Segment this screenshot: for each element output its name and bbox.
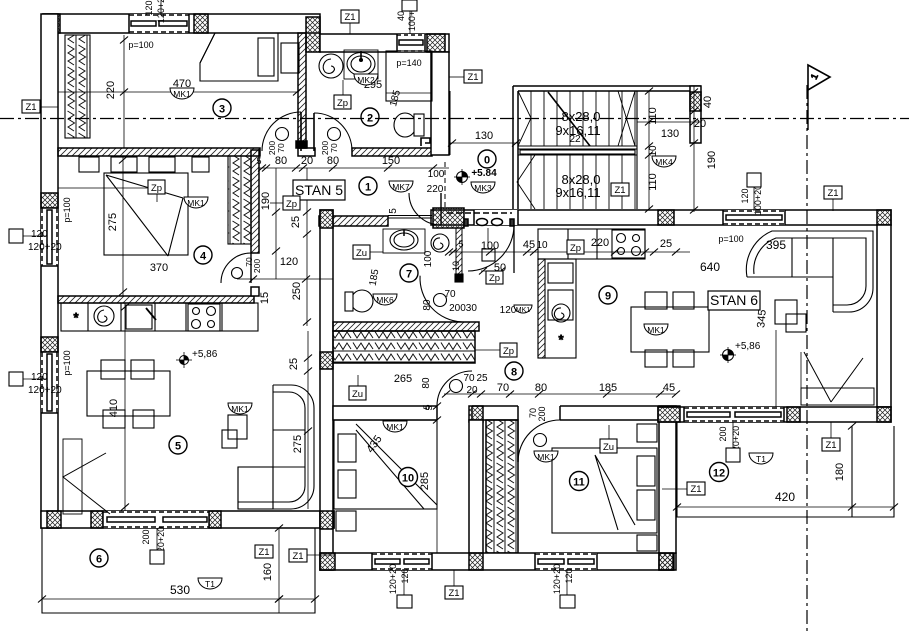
svg-text:110: 110 [647, 107, 659, 125]
band rooms10/11 bottom wall [320, 553, 676, 570]
MK1 room5 [228, 403, 252, 414]
leader squares bottom [157, 422, 733, 595]
pier band B 1 [469, 406, 483, 422]
svg-text:10: 10 [536, 240, 548, 251]
svg-text:100: 100 [481, 240, 499, 252]
centerline horizontal axis [0, 118, 909, 120]
hanger square kitchen6 [482, 228, 495, 261]
svg-text:40: 40 [396, 11, 406, 21]
band stair-bottom / STAN6 top wall [431, 210, 891, 225]
svg-text:120+20: 120+20 [28, 385, 62, 396]
svg-text:15: 15 [259, 292, 271, 304]
Z1 box top [341, 10, 359, 34]
sink bath7 [383, 229, 425, 253]
svg-text:120+20: 120+20 [156, 0, 166, 23]
wardrobe corridor8 [333, 331, 475, 363]
square marker stan6w [747, 173, 761, 187]
svg-text:p=100: p=100 [128, 40, 153, 50]
Zu box corridor [349, 375, 366, 400]
dim line corridor8 [442, 391, 680, 398]
svg-text:5: 5 [458, 239, 463, 249]
bed room10 [334, 420, 437, 509]
svg-text:345: 345 [755, 309, 769, 328]
stan6 corner V mark [804, 352, 863, 402]
bed room4 [104, 173, 188, 256]
dim line 190 vertical hall [272, 168, 280, 279]
MK6 bath7 [373, 294, 397, 305]
svg-text:Zp: Zp [151, 183, 162, 194]
stair flight boundary right [636, 91, 638, 209]
svg-text:20: 20 [301, 155, 313, 167]
window left wall (room5) [41, 352, 58, 413]
svg-text:p=100: p=100 [62, 197, 72, 222]
pier top-left corner [43, 14, 60, 33]
corner mark bath2 [421, 138, 430, 146]
svg-text:5: 5 [175, 441, 181, 453]
svg-text:6: 6 [96, 554, 102, 566]
Zp box hall [270, 196, 300, 210]
dim line stair top 130 [637, 119, 701, 126]
wall bath7 top hatched [319, 216, 388, 226]
svg-text:25: 25 [290, 216, 302, 228]
svg-text:130: 130 [475, 130, 493, 142]
room circle 2 [361, 108, 379, 126]
window bottom wall room5 (terrace door) [103, 511, 209, 528]
terrace 6 outline [42, 528, 315, 613]
wardrobe room4 [228, 156, 251, 244]
square marker terrace6win [150, 550, 164, 564]
dim line kitchen STAN6 [445, 249, 690, 256]
wall stub between hall doors [298, 148, 315, 156]
room circle 1 [359, 177, 377, 195]
svg-text:Zp: Zp [489, 273, 500, 284]
room circle 6 [90, 549, 108, 567]
dim line room5 vertical 410 [121, 303, 129, 511]
benchmark entry [454, 169, 470, 185]
pier band A left [433, 208, 464, 228]
square marker top2 [402, 0, 417, 11]
room circle 0 [478, 150, 496, 168]
toilet bath2 [394, 113, 424, 137]
svg-text:25: 25 [660, 238, 672, 250]
svg-text:285: 285 [419, 472, 431, 490]
Z1 box stairs [611, 183, 629, 196]
svg-text:*: * [73, 310, 78, 325]
svg-text:*: * [558, 332, 563, 347]
MK1 room3 [170, 88, 194, 99]
benchmark stan6 [720, 347, 736, 363]
svg-text:Z1: Z1 [827, 188, 838, 199]
wall strip kitchen6 left [455, 228, 463, 282]
room circle 7 [400, 264, 418, 282]
dining table STAN6 [631, 307, 709, 352]
svg-text:10: 10 [451, 261, 461, 271]
terrace 12 outline [677, 422, 894, 517]
kitchen counter STAN6 [538, 229, 645, 259]
window WC top wall [397, 34, 425, 52]
door11 opening [518, 405, 560, 421]
pier stair right [690, 92, 701, 111]
svg-text:Z1: Z1 [448, 588, 459, 599]
svg-text:45: 45 [663, 382, 675, 394]
square marker room11w [560, 595, 575, 608]
window room11 bottom [535, 553, 597, 570]
door label room4 [244, 257, 262, 273]
wall left exterior [41, 14, 58, 528]
Zp box small bath7 [486, 271, 503, 284]
Zu box bath7 [353, 245, 383, 259]
svg-text:40: 40 [702, 96, 714, 108]
Zu box room11 [600, 425, 617, 453]
sofa room5 L-shape [238, 385, 314, 509]
svg-text:1: 1 [365, 182, 371, 194]
svg-text:120+20: 120+20 [388, 564, 398, 594]
svg-text:120: 120 [31, 229, 48, 240]
washer bath7 spiral [431, 234, 449, 252]
sink bath2 [344, 50, 378, 79]
svg-text:70: 70 [463, 373, 475, 384]
svg-text:STAN 5: STAN 5 [295, 182, 343, 198]
svg-text:220: 220 [427, 184, 444, 195]
svg-text:MK3: MK3 [474, 183, 492, 193]
svg-text:+5,86: +5,86 [735, 341, 761, 352]
dim line room10 vertical 285 [436, 406, 438, 553]
svg-text:120: 120 [564, 568, 574, 583]
svg-text:120: 120 [31, 372, 48, 383]
stairwell right wall [690, 86, 701, 143]
bed room11 [552, 448, 657, 533]
dim line terrace12 vertical ticks [848, 423, 856, 430]
svg-text:80: 80 [275, 155, 287, 167]
band rooms10/11 top wall [333, 406, 676, 420]
svg-text:Z1: Z1 [825, 440, 836, 451]
svg-text:Z1: Z1 [690, 484, 701, 495]
dim line room3 vertical 220 [120, 35, 128, 148]
T1 terrace6 [198, 578, 222, 589]
svg-text:20: 20 [694, 118, 706, 130]
dim line room4 vertical 275 [119, 156, 127, 296]
pier room11 right bottom [659, 553, 673, 570]
shower column bath2 p140 [386, 51, 432, 101]
square marker left1 [9, 229, 23, 243]
dim line room3 horizontal 470 [58, 89, 301, 96]
pier v-wall bottom [320, 511, 333, 529]
MK1 room11 [534, 451, 558, 462]
svg-text:STAN 6: STAN 6 [710, 292, 758, 308]
wall divider room10/11 [469, 420, 483, 555]
svg-text:25: 25 [288, 358, 300, 370]
svg-text:120: 120 [740, 188, 750, 203]
svg-text:120+20: 120+20 [28, 242, 62, 253]
svg-text:20: 20 [466, 385, 478, 396]
MK4 stairs [652, 156, 676, 167]
svg-text:MK1: MK1 [537, 452, 555, 462]
svg-text:120: 120 [144, 0, 154, 15]
benchmark room5 [176, 352, 192, 368]
partition wall room3/room4 hatched [58, 148, 260, 156]
wall WC top [320, 34, 449, 52]
svg-text:70: 70 [329, 143, 339, 153]
window STAN6 top wall [723, 210, 785, 225]
svg-text:MK1: MK1 [386, 422, 404, 432]
window room10 bottom [372, 553, 432, 570]
svg-text:9x16,11: 9x16,11 [555, 185, 600, 200]
band STAN6 bottom wall [658, 407, 891, 422]
svg-text:275: 275 [292, 435, 304, 453]
door room11 [518, 420, 560, 462]
toilet bath7 [345, 290, 373, 312]
svg-text:MK2: MK2 [357, 75, 375, 85]
dim line 50 bath7 [479, 268, 505, 275]
pier band C 2 [469, 553, 483, 570]
STAN 6 box [708, 291, 760, 310]
wall room4 right stub [251, 287, 259, 296]
svg-text:MK1: MK1 [173, 89, 191, 99]
svg-text:220: 220 [105, 81, 117, 99]
dim line terrace12 [673, 504, 898, 511]
MK hallmid small [514, 305, 532, 314]
door bath2 (from hall1) [314, 113, 352, 151]
svg-text:12: 12 [713, 468, 725, 480]
svg-text:3: 3 [219, 104, 225, 116]
svg-text:200: 200 [718, 426, 728, 441]
svg-text:110: 110 [647, 173, 659, 191]
pier band D 1 [658, 407, 680, 422]
svg-text:Zp: Zp [570, 243, 581, 254]
nightstand room10 [336, 511, 356, 531]
svg-text:25: 25 [476, 373, 488, 384]
svg-text:100: 100 [423, 250, 434, 267]
room circle 12 [710, 463, 729, 482]
wall bottom exterior room5 [41, 511, 334, 528]
terrace 12 inner vertical line [851, 426, 853, 517]
pier left wall 2 [41, 337, 58, 352]
wall vertical room5/bath7/room10 [320, 210, 333, 570]
washer room5 spiral [94, 306, 114, 326]
svg-text:11: 11 [573, 477, 585, 489]
pier v-wall top [320, 210, 333, 228]
room circle 4 [194, 246, 212, 264]
stair left break [518, 91, 531, 146]
svg-text:Zu: Zu [356, 248, 367, 259]
stairwell top wall [513, 86, 701, 91]
svg-text:100: 100 [428, 169, 445, 180]
pier bottom 3 [209, 511, 221, 528]
svg-text:130: 130 [661, 128, 679, 140]
svg-text:70: 70 [444, 289, 456, 300]
stair treads upper flight [531, 91, 635, 146]
svg-text:T1: T1 [756, 454, 766, 464]
room circle 5 [169, 436, 187, 454]
dim line hall1 [258, 165, 449, 172]
dim line terrace6 vertical [275, 525, 283, 614]
svg-text:395: 395 [766, 238, 786, 252]
svg-text:200: 200 [537, 406, 547, 421]
nightstand room11 top [637, 424, 657, 442]
door room3 (from hall1) [262, 112, 301, 151]
svg-text:150: 150 [382, 155, 400, 167]
svg-text:p=100: p=100 [62, 350, 72, 375]
svg-text:Zp: Zp [503, 346, 514, 357]
door bath7 [418, 276, 464, 322]
dim line entry 130 [448, 140, 520, 147]
kitchen unit STAN6 vertical [538, 259, 576, 358]
square marker room10w [397, 595, 412, 608]
svg-text:0: 0 [484, 155, 490, 167]
dim line room10 5 [433, 403, 441, 424]
svg-text:22: 22 [569, 134, 581, 145]
window top wall (room3) [129, 14, 189, 33]
svg-text:Z1: Z1 [344, 12, 355, 23]
nightstand room11 bottom [637, 535, 657, 551]
dim line stairs inner [645, 88, 653, 213]
Zp box room4 [58, 180, 165, 202]
svg-text:4: 4 [200, 251, 207, 263]
svg-text:MK7: MK7 [392, 182, 410, 192]
svg-text:20030: 20030 [449, 303, 477, 314]
pier band A mid [658, 210, 674, 225]
door room4 [221, 253, 251, 283]
dim line sofa 275 [304, 331, 312, 509]
stove STAN6 [612, 230, 645, 258]
svg-text:MK4: MK4 [655, 157, 673, 167]
svg-text:370: 370 [150, 262, 168, 274]
svg-text:80: 80 [327, 155, 339, 167]
cushions room4 [79, 157, 209, 172]
wall WC right [431, 52, 449, 155]
partition kitchen room4/5 hatched [58, 296, 254, 303]
wall bath7 bottom hatched [333, 322, 479, 331]
svg-text:220: 220 [591, 237, 609, 249]
svg-text:70: 70 [276, 143, 286, 153]
room circle 10 [399, 468, 418, 487]
svg-text:+5.84: +5.84 [471, 168, 497, 179]
svg-text:MK1: MK1 [231, 404, 249, 414]
wall bath2 left hatched [298, 33, 306, 148]
Z1 box terrace6 a [255, 545, 273, 558]
bed room3 [200, 33, 278, 81]
svg-text:Z1: Z1 [614, 185, 625, 196]
STAN 5 box [293, 180, 345, 200]
svg-text:45: 45 [523, 239, 535, 251]
svg-text:Zp: Zp [337, 98, 348, 109]
entrance door opening with sidelights [447, 210, 518, 226]
door room5 terrace double-leaf [63, 439, 110, 514]
stair treads lower flight [531, 155, 635, 209]
svg-text:5: 5 [256, 156, 261, 166]
wall room11 right [659, 420, 676, 553]
MK1 room9 [644, 324, 668, 335]
svg-text:185: 185 [599, 382, 617, 394]
kitchen counter room5 [61, 303, 258, 331]
wall room4 right hatched [251, 150, 259, 253]
coffee table STAN6 [775, 300, 806, 332]
stove room5 [188, 304, 220, 331]
svg-text:Z1: Z1 [467, 72, 478, 83]
svg-text:410: 410 [108, 399, 120, 417]
pier band D 3 [877, 407, 891, 422]
MK2 bath2 [354, 74, 378, 85]
svg-text:190: 190 [260, 192, 272, 210]
leader room9 window [161, 0, 754, 211]
svg-text:p=140: p=140 [396, 58, 421, 68]
svg-text:Z1: Z1 [292, 551, 303, 562]
partition hall1/bath7 hatched [352, 148, 432, 156]
svg-text:80: 80 [535, 382, 547, 394]
Zp box kitchen6 [567, 240, 584, 254]
svg-text:Zu: Zu [352, 389, 363, 400]
sofa STAN6 [746, 231, 873, 312]
wall hall1 bottom thin segment [388, 216, 432, 219]
svg-text:10: 10 [402, 473, 414, 485]
stairwell left wall [513, 86, 518, 209]
pier band D 2 [787, 407, 800, 422]
svg-text:80: 80 [422, 299, 433, 311]
Z1 box wc [449, 70, 482, 83]
Zp box bath2 [334, 80, 351, 109]
pier top wall mid [194, 14, 208, 33]
svg-text:265: 265 [394, 373, 412, 385]
nightstand room3 [281, 43, 299, 73]
svg-text:250: 250 [291, 282, 303, 300]
svg-text:7: 7 [406, 269, 412, 281]
sink room5 [126, 305, 156, 329]
svg-text:530: 530 [170, 583, 190, 597]
svg-text:420: 420 [775, 490, 795, 504]
dim line 120 room5 [237, 276, 333, 283]
room circle 3 [213, 99, 231, 117]
svg-text:T1: T1 [205, 579, 215, 589]
svg-text:MK1: MK1 [187, 198, 205, 208]
svg-text:p=100: p=100 [718, 234, 743, 244]
wardrobe room11 [486, 420, 518, 553]
dining table room5 [87, 371, 170, 416]
svg-text:70: 70 [497, 382, 509, 394]
svg-text:190: 190 [706, 151, 718, 169]
room circle 9 [599, 286, 617, 304]
centerline vertical axis 1 [806, 85, 808, 635]
wardrobe room3 [65, 35, 90, 138]
svg-text:120: 120 [400, 568, 410, 583]
svg-text:275: 275 [107, 213, 119, 231]
Z1 box left [22, 100, 58, 113]
pier bottom 2 [91, 511, 103, 528]
Z1 box room11 [662, 482, 705, 495]
washer bath2 spiral [319, 54, 343, 78]
pier band B 2 [659, 406, 680, 421]
svg-text:Zu: Zu [603, 442, 614, 453]
chairs STAN6 [645, 292, 694, 367]
pier left wall 1 [41, 193, 58, 208]
svg-text:180: 180 [834, 463, 846, 481]
MK1 room10 [383, 421, 407, 432]
wall bath2 left end cap [296, 141, 307, 148]
square marker left2 [9, 372, 23, 386]
pier WC top right [427, 34, 445, 52]
stan6 bench [776, 330, 874, 407]
svg-text:120+20: 120+20 [552, 564, 562, 594]
svg-text:640: 640 [700, 260, 720, 274]
svg-text:5: 5 [422, 404, 432, 409]
svg-text:100+20: 100+20 [753, 185, 763, 215]
pier bath2 top step [306, 17, 320, 52]
wall STAN6 right [877, 225, 891, 407]
stair up diagonal [548, 92, 590, 146]
svg-text:Zp: Zp [286, 199, 297, 210]
Z1 box bottom mid [445, 570, 463, 599]
MK7 hall [389, 181, 413, 192]
dim line terrace6 [38, 596, 319, 603]
